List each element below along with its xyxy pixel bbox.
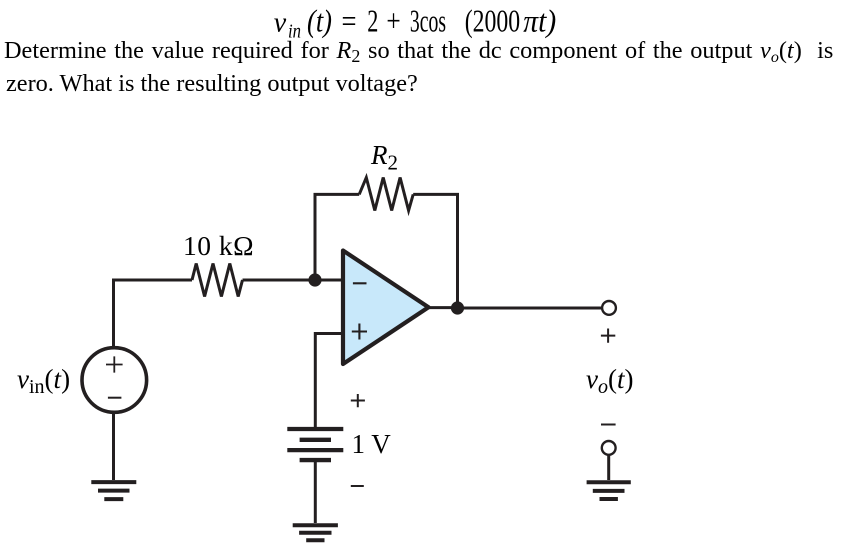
feedback wire: R2 right down to output node — [413, 194, 457, 308]
wire from 10k resistor to inverting node — [243, 279, 316, 282]
battery − polarity mark — [351, 485, 364, 487]
output terminal lower (open circle) — [602, 441, 616, 455]
equation line vin(t) = 2 + 3cos(2000πt) — [0, 0, 850, 45]
voltage source Vin circle — [82, 348, 147, 413]
op-amp U1 triangle — [343, 251, 429, 365]
op-amp noninverting input wire down to battery — [315, 334, 343, 428]
label vo(t) — [586, 364, 634, 395]
output − polarity mark — [601, 424, 616, 426]
Vin + polarity mark — [106, 356, 123, 372]
wire output node to output terminal — [458, 307, 602, 310]
label vin(t) — [17, 364, 70, 395]
output + polarity mark — [601, 329, 615, 343]
op-amp noninverting (+) input mark — [352, 324, 367, 340]
middle ground symbol — [293, 525, 338, 540]
label 1 V — [352, 429, 391, 460]
wire from node to op-amp inverting input — [315, 279, 343, 282]
Vin − polarity mark — [108, 397, 122, 399]
right ground symbol — [587, 482, 631, 499]
battery + polarity mark — [351, 394, 365, 407]
problem text line 1 — [4, 37, 833, 65]
op-amp inverting (-) input mark — [353, 282, 367, 284]
left ground symbol — [91, 482, 136, 499]
label 10 kΩ — [183, 230, 254, 262]
resistor R2 zigzag — [359, 178, 413, 211]
feedback wire: node up to R2 — [315, 194, 359, 280]
node dot: output junction — [451, 301, 464, 314]
battery plate 2 (short) — [300, 438, 331, 442]
wire Vin source bottom to left ground — [112, 412, 115, 480]
battery plate 3 (long) — [287, 448, 343, 452]
wire lower output terminal to right ground — [607, 455, 610, 481]
node dot: inverting input junction — [308, 273, 321, 286]
label R2 — [371, 140, 398, 171]
battery plate 4 (short, bottom) — [300, 458, 331, 462]
wire op-amp output apex to output node — [429, 306, 458, 309]
problem text line 2 — [6, 70, 418, 98]
resistor 10 kΩ zigzag — [192, 264, 243, 297]
output terminal upper (open circle) — [602, 301, 616, 315]
wire battery bottom to middle ground — [314, 462, 317, 523]
wire from Vin source up and right to 10k resistor — [114, 280, 193, 348]
battery plate 1 (long, top) — [287, 427, 343, 431]
